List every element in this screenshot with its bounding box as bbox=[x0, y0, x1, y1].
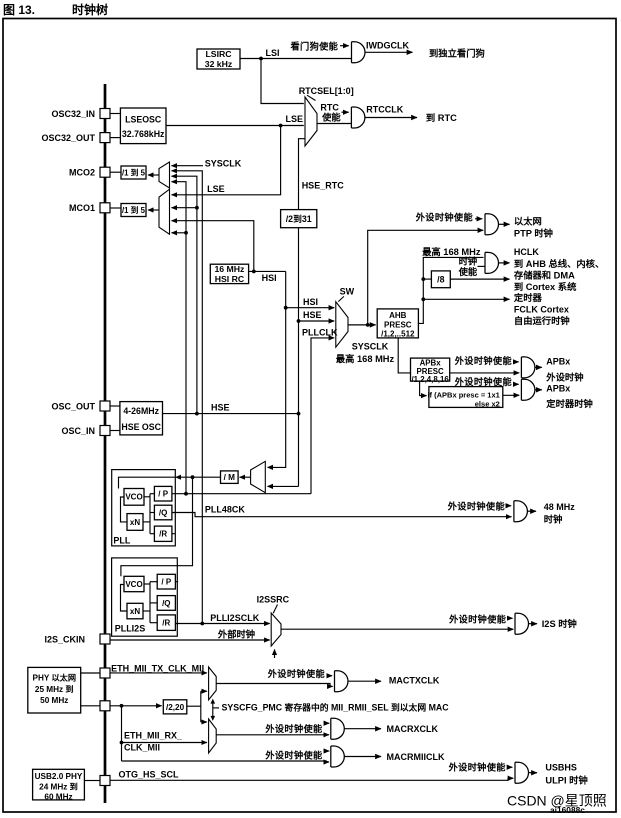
wire MCO1 input4 from PLL bus bbox=[172, 232, 187, 234]
arrowhead /M into PLL bbox=[175, 475, 181, 480]
svg-text:50 MHz: 50 MHz bbox=[40, 696, 68, 705]
svg-text:使能: 使能 bbox=[458, 266, 478, 277]
svg-text:HSI: HSI bbox=[303, 297, 318, 307]
svg-text:MCO1: MCO1 bbox=[69, 203, 95, 213]
svg-text:外部时钟: 外部时钟 bbox=[217, 629, 255, 640]
wire MACRX enable arrow bbox=[324, 722, 329, 724]
svg-text:到 RTC: 到 RTC bbox=[426, 112, 457, 123]
svg-text:OSC_IN: OSC_IN bbox=[61, 426, 95, 436]
svg-text:LSI: LSI bbox=[266, 48, 280, 58]
svg-text:ULPI 时钟: ULPI 时钟 bbox=[545, 774, 587, 785]
svg-text:/ P: / P bbox=[158, 490, 168, 499]
wire PLLI2SCLK from /R bbox=[175, 623, 269, 625]
node HSE bus at MCO1 bbox=[195, 206, 199, 210]
svg-text:4-26MHz: 4-26MHz bbox=[123, 406, 159, 416]
svg-text:时钟: 时钟 bbox=[459, 256, 478, 267]
pin I2S_CKIN bbox=[100, 634, 110, 644]
wire MACTXCLK output bbox=[348, 680, 381, 682]
node PLL bus at MCO1 bbox=[184, 231, 188, 235]
svg-text:CLK_MII: CLK_MII bbox=[124, 742, 160, 752]
svg-text:APBx: APBx bbox=[546, 384, 570, 394]
AND gate APBx timer bbox=[521, 379, 535, 400]
PHY ethernet box bbox=[28, 667, 81, 713]
wire I2S mux output bbox=[281, 628, 513, 630]
wire 48MHz enable arrow bbox=[507, 505, 511, 507]
wire AHB to APBx bbox=[398, 338, 410, 373]
node /M to PLLI2S bbox=[191, 475, 195, 479]
wire APB2 enable arrow bbox=[514, 383, 519, 385]
svg-text:USBHS: USBHS bbox=[545, 762, 577, 772]
pin ETH_MII_TX_CLK_MII bbox=[100, 668, 110, 678]
wire PTP output bbox=[499, 223, 510, 225]
wire HCLK enable arrow bbox=[478, 265, 485, 267]
wire HSE into SW mux bbox=[299, 320, 335, 322]
wire watchdog enable arrow bbox=[340, 45, 349, 47]
svg-text:时钟树: 时钟树 bbox=[72, 2, 108, 17]
svg-text:外设时钟使能: 外设时钟使能 bbox=[264, 723, 323, 734]
node HSE into vertical bbox=[297, 412, 301, 416]
wire RMII refclk line bbox=[122, 761, 330, 762]
svg-text:PTP 时钟: PTP 时钟 bbox=[514, 228, 553, 239]
wire HSE vertical bbox=[298, 228, 300, 487]
svg-text:25 MHz 到: 25 MHz 到 bbox=[35, 684, 74, 694]
select tick SW bbox=[338, 296, 344, 301]
AND gate IWDG bbox=[352, 42, 365, 63]
svg-text:MCO2: MCO2 bbox=[69, 168, 95, 178]
svg-text:外设时钟使能: 外设时钟使能 bbox=[448, 614, 507, 625]
svg-text:MACRXCLK: MACRXCLK bbox=[387, 724, 439, 734]
PLL /P box bbox=[154, 486, 172, 501]
oscillator 16MHz HSI RC box bbox=[210, 264, 248, 283]
wire HCLK output bbox=[499, 262, 510, 264]
svg-text:存储器和 DMA: 存储器和 DMA bbox=[514, 270, 575, 281]
AND gate HCLK bbox=[485, 252, 499, 273]
svg-text:PLLI2S: PLLI2S bbox=[115, 623, 146, 633]
node HSI at SW input bbox=[284, 306, 288, 310]
PLLI2S divider trunk bbox=[149, 582, 151, 623]
wire LSI down to RTC mux bbox=[261, 59, 304, 104]
svg-text:else x2: else x2 bbox=[475, 400, 500, 409]
node HSE at SW input bbox=[297, 319, 301, 323]
wire HSE output bbox=[163, 413, 299, 415]
pin ETH_MII_RX_CLK_MII bbox=[100, 701, 110, 711]
PLLI2S /R box bbox=[157, 615, 175, 631]
svg-text:LSIRC: LSIRC bbox=[205, 49, 232, 59]
wire I2S enable arrow bbox=[508, 617, 513, 619]
node HSI junction bbox=[252, 270, 256, 274]
svg-text:SYSCLK: SYSCLK bbox=[352, 342, 389, 352]
wire PTP enable arrow bbox=[475, 218, 482, 220]
wire HSI into SW mux bbox=[286, 307, 335, 309]
svg-text:IWDGCLK: IWDGCLK bbox=[366, 40, 409, 50]
node HSE to MCO bus bbox=[195, 412, 199, 416]
svg-text:60 MHz: 60 MHz bbox=[44, 793, 72, 802]
svg-text:PLLCLK: PLLCLK bbox=[302, 328, 338, 338]
wire RX clock to /2,20 bbox=[110, 705, 162, 707]
svg-text:/2到31: /2到31 bbox=[286, 213, 312, 224]
wire FCLK output bbox=[423, 298, 509, 300]
pin OSC32_IN bbox=[100, 109, 110, 119]
AND gate PTP bbox=[485, 214, 499, 235]
svg-text:HSE: HSE bbox=[211, 403, 230, 413]
divider /M box bbox=[221, 471, 239, 484]
wire RX vertical branch bbox=[121, 706, 123, 761]
svg-text:xN: xN bbox=[130, 607, 140, 616]
AND gate 48MHz bbox=[514, 501, 528, 522]
svg-text:HSI RC: HSI RC bbox=[215, 274, 245, 284]
wire MCO1 stub bbox=[110, 207, 121, 209]
PLL xN box bbox=[127, 514, 143, 531]
mux MCO2 bbox=[159, 162, 170, 188]
wire AHB output up bbox=[418, 257, 483, 323]
PLLI2S container box bbox=[112, 558, 178, 636]
svg-text:/1 到 5: /1 到 5 bbox=[122, 167, 146, 177]
mux RTCSEL bbox=[305, 97, 317, 146]
wire APB2 output bbox=[535, 389, 542, 391]
svg-text:RTCCLK: RTCCLK bbox=[366, 105, 403, 115]
node PLLI2SCLK to MCO2 bus bbox=[200, 622, 204, 626]
wire SYSCLK up to PTP gate bbox=[368, 230, 484, 325]
svg-text:USB2.0 PHY: USB2.0 PHY bbox=[35, 772, 83, 781]
node HCLK to FCLK bbox=[421, 297, 425, 301]
wire APBx output to gate bbox=[450, 372, 520, 374]
wire div8 output to Cortex timer bbox=[450, 278, 509, 280]
svg-text:VCO: VCO bbox=[125, 493, 142, 502]
wire APB1 output bbox=[535, 366, 542, 368]
svg-text:到 AHB 总线、内核、: 到 AHB 总线、内核、 bbox=[514, 258, 604, 269]
svg-text:定时器时钟: 定时器时钟 bbox=[546, 398, 593, 409]
wire if box output bbox=[503, 394, 519, 396]
svg-text:外设时钟使能: 外设时钟使能 bbox=[454, 355, 513, 366]
svg-text:RTC: RTC bbox=[320, 103, 339, 113]
wire MCO2 mux output bbox=[148, 174, 159, 176]
svg-text:APBx: APBx bbox=[546, 356, 570, 366]
wire MACRMIICLK output bbox=[344, 756, 381, 758]
USB PHY box bbox=[33, 769, 85, 800]
wire LSE down to MCO1 bbox=[172, 126, 281, 195]
wire APB1 enable arrow bbox=[514, 361, 519, 363]
svg-text:SW: SW bbox=[340, 287, 355, 297]
wire MCO2 input SYSCLK stub bbox=[172, 165, 204, 167]
wire SYSCLK from SW mux bbox=[348, 324, 376, 326]
wire OSC_OUT stub bbox=[110, 405, 120, 407]
wire PLL /R stub bbox=[172, 533, 175, 535]
PLLI2S /P stub bbox=[175, 581, 178, 583]
svg-text:PLLI2SCLK: PLLI2SCLK bbox=[210, 613, 260, 623]
PLL divider trunk bbox=[149, 494, 151, 534]
divider /2到31 box bbox=[281, 210, 317, 228]
svg-text:HSE: HSE bbox=[303, 310, 322, 320]
conditional multiplier box bbox=[429, 387, 503, 408]
svg-text:/1,2,4,8,16: /1,2,4,8,16 bbox=[411, 375, 449, 384]
wire APBx to if box bbox=[420, 381, 427, 396]
PLLI2S feedback loop wires bbox=[121, 585, 128, 612]
svg-text:时钟: 时钟 bbox=[544, 514, 563, 525]
svg-text:ETH_MII_RX_: ETH_MII_RX_ bbox=[124, 730, 183, 740]
wire MACRMII enable arrow bbox=[324, 750, 329, 752]
svg-text:/R: /R bbox=[159, 530, 167, 539]
wire MCO1 mux output bbox=[148, 209, 159, 211]
wire OSC_IN stub bbox=[110, 430, 120, 432]
node LSE junction bbox=[279, 124, 283, 128]
AND gate MACTX bbox=[335, 671, 348, 692]
svg-text:外设时钟使能: 外设时钟使能 bbox=[448, 762, 507, 773]
AND gate USB bbox=[515, 762, 529, 783]
svg-text:自由运行时钟: 自由运行时钟 bbox=[514, 315, 570, 326]
svg-text:/1,2,..512: /1,2,..512 bbox=[381, 330, 415, 339]
wire OTG_HS line bbox=[110, 778, 513, 780]
svg-text:定时器: 定时器 bbox=[514, 292, 543, 303]
pin OTG_HS_ULPI bbox=[100, 776, 110, 786]
svg-text:LSE: LSE bbox=[207, 184, 225, 194]
mux ETH TX bbox=[209, 667, 217, 700]
select line between ETH muxes bbox=[212, 703, 214, 717]
PLLI2S VCO box bbox=[124, 576, 144, 591]
wire /M output into PLL bbox=[119, 477, 221, 488]
pin OSC_IN bbox=[100, 426, 110, 436]
svg-text:到独立看门狗: 到独立看门狗 bbox=[429, 47, 485, 58]
svg-text:HSE OSC: HSE OSC bbox=[121, 422, 161, 432]
PLL /Q box bbox=[154, 505, 172, 520]
wire RX into lower mux bbox=[122, 742, 207, 744]
wire /2,20 split to muxes bbox=[187, 705, 201, 707]
node RX branch bbox=[120, 704, 124, 708]
svg-text:外设时钟使能: 外设时钟使能 bbox=[415, 212, 474, 223]
svg-text:外设时钟使能: 外设时钟使能 bbox=[454, 376, 513, 387]
wire MCO2 input2 from PLLI2S bus bbox=[172, 171, 203, 624]
prescaler APBx PRESC box bbox=[411, 358, 450, 381]
node PLLCLK to MCO bus bbox=[184, 492, 188, 496]
wire I2S output bbox=[529, 623, 538, 625]
wire HSE into PLL mux bbox=[268, 485, 299, 487]
wire MCO2 stub bbox=[110, 171, 121, 173]
divider /1到5 box MCO2 bbox=[121, 166, 146, 179]
svg-text:外设时钟使能: 外设时钟使能 bbox=[267, 668, 326, 679]
select arrow below I2S mux bbox=[274, 650, 276, 659]
divider /1到5 box MCO1 bbox=[121, 204, 146, 217]
svg-text:/ M: / M bbox=[224, 473, 236, 482]
wire TX clock into mux bbox=[110, 672, 207, 674]
mux ETH RX bbox=[209, 719, 217, 753]
pin OSC_OUT bbox=[100, 401, 110, 411]
wire IWDGCLK output bbox=[365, 51, 413, 53]
svg-text:xN: xN bbox=[130, 518, 140, 527]
svg-text:VCO: VCO bbox=[125, 580, 142, 589]
pin MCO2 bbox=[100, 167, 110, 177]
wire PLLCLK into SW mux bbox=[311, 338, 334, 494]
mux MCO1 bbox=[159, 189, 170, 234]
wire 外部时钟 I2S_CKIN bbox=[110, 639, 270, 641]
wire USB enable arrow bbox=[508, 766, 513, 768]
mux SW system clock bbox=[336, 302, 348, 348]
wire LSE to RTC mux bbox=[166, 125, 304, 127]
svg-text:ai16088c: ai16088c bbox=[550, 805, 585, 815]
select tick RTCSEL bbox=[307, 95, 316, 100]
wire PLL mux output to /M bbox=[240, 476, 251, 478]
svg-text:外设时钟使能: 外设时钟使能 bbox=[447, 501, 506, 512]
wire 48MHz output bbox=[527, 510, 536, 512]
AND gate I2S bbox=[515, 613, 529, 634]
divider /8 box bbox=[431, 271, 450, 288]
wire HSI down to SW and PLL mux bbox=[268, 271, 286, 467]
svg-text:最高 168 MHz: 最高 168 MHz bbox=[422, 246, 481, 257]
svg-text:HSE_RTC: HSE_RTC bbox=[302, 181, 345, 191]
AND gate MACRX bbox=[331, 718, 345, 739]
svg-text:ETH_MII_TX_CLK_MII: ETH_MII_TX_CLK_MII bbox=[111, 663, 204, 673]
node RX to lower mux bbox=[120, 741, 124, 745]
svg-text:OSC_OUT: OSC_OUT bbox=[51, 402, 95, 412]
divider /2,20 box bbox=[163, 700, 187, 714]
wire RTC enable arrow bbox=[342, 111, 349, 113]
pin MCO1 bbox=[100, 203, 110, 213]
wire MCO1 input2 from HSE bus bbox=[172, 207, 197, 209]
svg-text:LSEOSC: LSEOSC bbox=[125, 115, 162, 125]
svg-text:以太网: 以太网 bbox=[514, 215, 542, 226]
wire HSE_RTC into RTC mux bbox=[299, 139, 306, 210]
oscillator LSIRC box bbox=[197, 49, 240, 69]
wire PHY to TX pin bbox=[81, 672, 100, 674]
wire PLLCLK from /P bbox=[172, 493, 311, 495]
svg-text:I2S 时钟: I2S 时钟 bbox=[542, 618, 577, 629]
wire RTCCLK output bbox=[365, 117, 417, 119]
svg-text:LSE: LSE bbox=[285, 114, 303, 124]
oscillator 4-26MHz HSE OSC box bbox=[120, 402, 163, 435]
wire RTC mux output bbox=[317, 123, 351, 125]
wire ETH RX mux output bbox=[216, 734, 329, 736]
wire PHY to RX pin bbox=[81, 705, 100, 707]
svg-text:PLL48CK: PLL48CK bbox=[205, 504, 246, 514]
PLL feedback loop wires bbox=[121, 497, 128, 522]
svg-text:FCLK Cortex: FCLK Cortex bbox=[514, 304, 569, 314]
select tick I2SSRC bbox=[273, 605, 277, 614]
mux I2SSRC bbox=[271, 613, 281, 646]
svg-text:到 Cortex 系统: 到 Cortex 系统 bbox=[514, 281, 577, 292]
wire USB PHY stub bbox=[84, 780, 100, 782]
svg-text:OSC32_IN: OSC32_IN bbox=[51, 109, 95, 119]
PLLI2S /Q box bbox=[157, 596, 175, 611]
PLLI2S /P box bbox=[157, 574, 175, 589]
svg-text:I2S_CKIN: I2S_CKIN bbox=[44, 635, 85, 645]
svg-text:/R: /R bbox=[162, 619, 170, 628]
wire OSC32_OUT stub bbox=[110, 137, 120, 139]
left device boundary bus bbox=[104, 84, 107, 803]
wire LSI to IWDG gate bbox=[240, 58, 351, 60]
svg-text:OTG_HS_SCL: OTG_HS_SCL bbox=[119, 770, 180, 780]
svg-text:/8: /8 bbox=[437, 275, 444, 285]
wire MCO1 input3 HSI bbox=[172, 221, 254, 272]
svg-text:PRESC: PRESC bbox=[384, 320, 412, 329]
svg-text:/Q: /Q bbox=[162, 599, 170, 608]
PLL container box bbox=[112, 470, 176, 546]
PLL VCO box bbox=[124, 489, 144, 506]
AND gate MACRMII bbox=[331, 746, 345, 767]
wire MCO2 input3 from HSE bus bbox=[172, 176, 197, 413]
wire MCO2 input4 from PLL bus bbox=[172, 182, 187, 494]
svg-text:/ P: / P bbox=[161, 578, 171, 587]
svg-text:I2SSRC: I2SSRC bbox=[257, 595, 290, 605]
svg-text:看门狗使能: 看门狗使能 bbox=[291, 40, 339, 51]
oscillator LSEOSC box bbox=[120, 108, 166, 144]
node HCLK to div8 bbox=[421, 277, 425, 281]
wire div8 input bbox=[423, 278, 431, 280]
svg-text:HCLK: HCLK bbox=[514, 247, 539, 257]
svg-text:MACTXCLK: MACTXCLK bbox=[389, 676, 440, 686]
prescaler AHB PRESC box bbox=[377, 309, 418, 338]
svg-text:使能: 使能 bbox=[321, 111, 341, 122]
wire PLL48CK from /Q bbox=[172, 513, 512, 517]
svg-text:外设时钟使能: 外设时钟使能 bbox=[264, 749, 323, 760]
svg-text:SYSCFG_PMC 寄存器中的 MII_RMII_SEL: SYSCFG_PMC 寄存器中的 MII_RMII_SEL 到以太网 MAC bbox=[222, 701, 450, 712]
svg-text:32.768kHz: 32.768kHz bbox=[122, 129, 165, 139]
svg-text:MACRMIICLK: MACRMIICLK bbox=[387, 752, 445, 762]
svg-text:PLL: PLL bbox=[113, 536, 131, 546]
svg-text:SYSCLK: SYSCLK bbox=[205, 159, 242, 169]
PLL /R box bbox=[154, 526, 172, 541]
wire /M feed to PLLI2S bbox=[121, 477, 193, 576]
svg-text:PHY 以太网: PHY 以太网 bbox=[32, 673, 76, 683]
svg-text:OSC32_OUT: OSC32_OUT bbox=[41, 133, 95, 143]
svg-text:/Q: /Q bbox=[159, 508, 167, 517]
wire HSI output bbox=[249, 270, 286, 272]
AND gate APBx peripheral bbox=[521, 357, 535, 378]
svg-text:/2,20: /2,20 bbox=[166, 703, 185, 712]
svg-text:AHB: AHB bbox=[389, 311, 407, 320]
node SYSCLK junction bbox=[366, 323, 370, 327]
wire USB output bbox=[529, 772, 538, 774]
svg-text:32 kHz: 32 kHz bbox=[205, 59, 233, 69]
svg-text:HSI: HSI bbox=[262, 273, 277, 283]
svg-text:RTCSEL[1:0]: RTCSEL[1:0] bbox=[299, 86, 354, 96]
svg-text:/1 到 5: /1 到 5 bbox=[122, 205, 146, 215]
node LSI junction bbox=[259, 57, 263, 61]
mux PLL source bbox=[251, 461, 266, 492]
svg-text:48 MHz: 48 MHz bbox=[544, 502, 576, 512]
pin OSC32_OUT bbox=[100, 133, 110, 143]
wire OSC32_IN stub bbox=[110, 113, 120, 115]
svg-text:图 13.: 图 13. bbox=[3, 3, 35, 17]
wire MACRXCLK output bbox=[344, 728, 381, 730]
svg-text:16 MHz: 16 MHz bbox=[214, 264, 245, 274]
wire MACTX enable arrow bbox=[327, 675, 333, 677]
svg-text:最高 168 MHz: 最高 168 MHz bbox=[336, 353, 395, 364]
PLLI2S xN box bbox=[127, 603, 143, 619]
svg-text:外设时钟: 外设时钟 bbox=[545, 372, 583, 383]
wire ETH TX mux output bbox=[216, 684, 333, 687]
svg-text:24 MHz 到: 24 MHz 到 bbox=[39, 781, 78, 791]
svg-text:if (APBx presc = 1x1: if (APBx presc = 1x1 bbox=[427, 390, 499, 399]
AND gate RTC bbox=[351, 107, 365, 128]
